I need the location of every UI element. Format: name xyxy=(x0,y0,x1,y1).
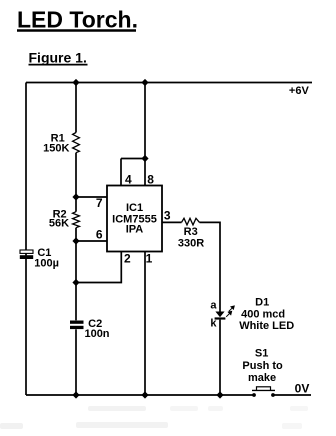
svg-text:Push to: Push to xyxy=(242,360,283,372)
svg-text:330R: 330R xyxy=(178,238,204,250)
svg-text:D1: D1 xyxy=(255,297,269,309)
svg-text:R3: R3 xyxy=(184,226,198,238)
svg-text:100µ: 100µ xyxy=(34,258,59,270)
svg-text:8: 8 xyxy=(147,173,154,187)
svg-text:S1: S1 xyxy=(255,348,268,360)
svg-text:IC1: IC1 xyxy=(126,202,143,214)
svg-text:7: 7 xyxy=(96,196,103,210)
svg-text:Figure 1.: Figure 1. xyxy=(29,50,87,66)
svg-text:+6V: +6V xyxy=(289,85,310,97)
svg-text:56K: 56K xyxy=(49,217,69,229)
svg-text:6: 6 xyxy=(96,228,103,242)
svg-text:White LED: White LED xyxy=(239,320,294,332)
svg-text:2: 2 xyxy=(124,252,131,266)
svg-text:100n: 100n xyxy=(84,328,109,340)
svg-text:k: k xyxy=(210,318,217,330)
svg-text:LED Torch.: LED Torch. xyxy=(17,7,138,33)
svg-text:IPA: IPA xyxy=(126,223,144,235)
svg-text:1: 1 xyxy=(146,252,153,266)
svg-text:3: 3 xyxy=(164,209,171,223)
svg-text:a: a xyxy=(210,300,217,312)
svg-text:400 mcd: 400 mcd xyxy=(241,308,285,320)
svg-text:0V: 0V xyxy=(295,382,310,396)
svg-text:4: 4 xyxy=(125,173,132,187)
svg-text:150K: 150K xyxy=(43,143,69,155)
svg-text:make: make xyxy=(248,372,276,384)
